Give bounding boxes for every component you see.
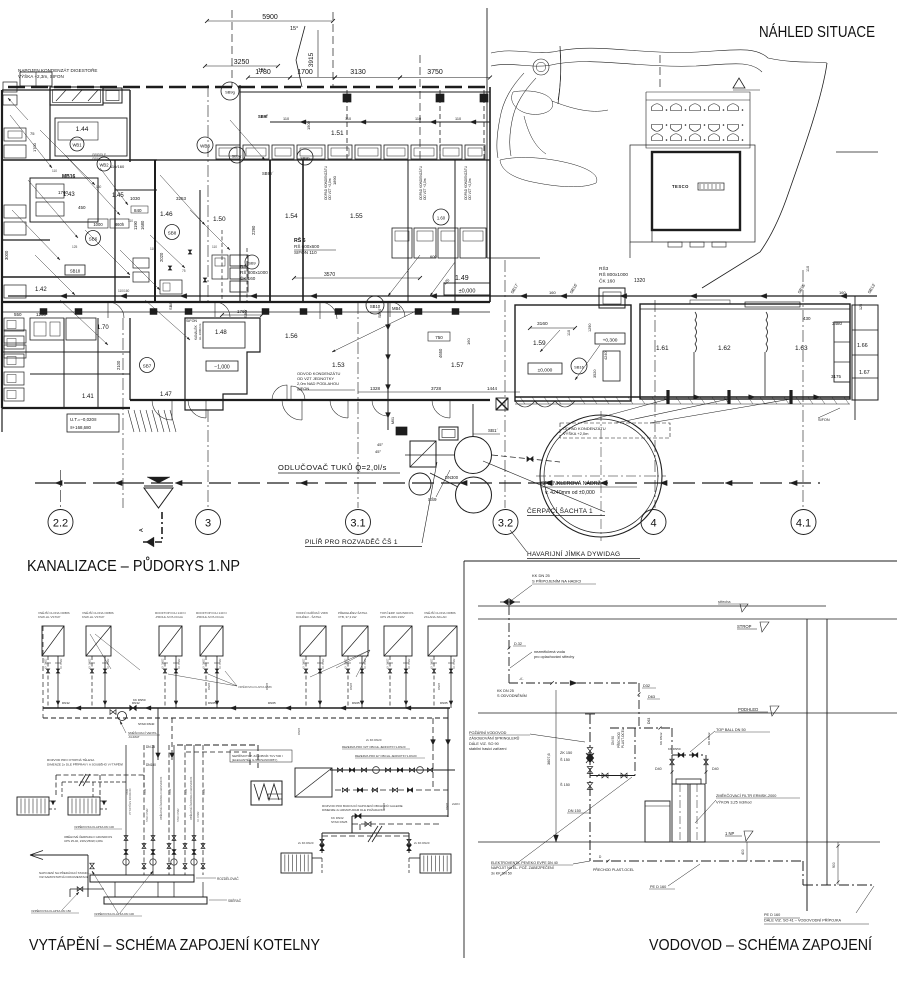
svg-text:1680: 1680 — [140, 220, 145, 230]
branch dashed loop to radiators — [56, 775, 144, 797]
svg-text:1.45: 1.45 — [112, 193, 124, 199]
circle SB6 — [86, 231, 101, 246]
svg-text:2100: 2100 — [116, 360, 121, 370]
radiator connections — [49, 800, 107, 802]
leader fan left units — [168, 674, 237, 686]
svg-text:DN 25: DN 25 — [146, 745, 155, 749]
svg-text:OD VZT +2,0m: OD VZT +2,0m — [468, 178, 472, 200]
svg-text:2290: 2290 — [251, 225, 256, 235]
unit 8 pipes — [433, 656, 435, 708]
kitchen hood — [50, 87, 103, 105]
corner down x639 — [638, 683, 640, 728]
svg-text:WB3: WB3 — [200, 144, 210, 149]
svg-text:DN65: DN65 — [437, 682, 441, 690]
svg-text:SB9: SB9 — [248, 262, 255, 266]
AHU unit box 2 — [86, 626, 111, 656]
fixtures 1.50 room — [212, 255, 228, 279]
svg-text:1.50: 1.50 — [213, 216, 226, 223]
svg-text:KK DN32: KK DN32 — [659, 732, 663, 745]
label SB10 circle — [366, 296, 384, 314]
softener tanks — [645, 801, 670, 842]
dim 900 — [837, 842, 839, 885]
unit 3 pipes — [164, 656, 166, 708]
lower plan block — [2, 296, 520, 508]
svg-text:DN 150: DN 150 — [568, 809, 581, 813]
AHU unit box 7 — [384, 626, 412, 656]
svg-text:2.2: 2.2 — [53, 518, 68, 530]
svg-text:3570: 3570 — [324, 272, 335, 278]
short stub right of map — [836, 151, 878, 153]
tank leader valve — [492, 455, 560, 462]
dim 750 box — [428, 332, 450, 341]
kk vertical valves — [670, 759, 674, 765]
svg-text:1.70: 1.70 — [97, 325, 109, 331]
svg-text:DIMENZE 2x ARMATURAM DLE POŽAD: DIMENZE 2x ARMATURAM DLE POŽADAVKŮ — [322, 807, 385, 812]
svg-text:±0,000: ±0,000 — [538, 368, 553, 374]
right edge pipes — [854, 296, 856, 420]
svg-text:ČERPACÍ ŠACHTA 1: ČERPACÍ ŠACHTA 1 — [527, 506, 593, 515]
svg-text:KK DN32: KK DN32 — [387, 658, 390, 669]
svg-text:DN65: DN65 — [352, 701, 360, 705]
right vertical ends — [806, 885, 808, 911]
left fixtures — [4, 128, 26, 141]
svg-text:TOP BALL DN 50: TOP BALL DN 50 — [716, 728, 746, 732]
leader fan mid — [90, 634, 111, 669]
svg-text:2x KK DN20: 2x KK DN20 — [414, 841, 430, 845]
svg-text:1190: 1190 — [133, 220, 138, 230]
svg-text:UPS 25-60N 230V: UPS 25-60N 230V — [380, 615, 405, 619]
svg-text:1444: 1444 — [487, 386, 498, 391]
svg-text:5900: 5900 — [262, 14, 278, 21]
svg-text:1.60: 1.60 — [437, 216, 446, 221]
down risers mid — [157, 708, 159, 760]
fire riser valves — [587, 748, 592, 755]
dim row 1328 3728 1444 — [358, 391, 520, 393]
svg-text:RŠ 800x1000: RŠ 800x1000 — [240, 269, 268, 275]
svg-text:SB6: SB6 — [89, 237, 98, 242]
reserve valve row 2 — [335, 789, 448, 791]
hall dividers — [695, 312, 697, 352]
svg-text:75: 75 — [182, 269, 186, 273]
roof line strecha — [478, 605, 826, 607]
svg-text:KK DN32: KK DN32 — [364, 658, 367, 669]
road to southwest — [497, 73, 524, 158]
svg-text:110: 110 — [150, 247, 155, 251]
left radiator 1 — [17, 797, 49, 815]
grid dashed vertical x420 — [419, 55, 421, 160]
svg-text:SB9h´: SB9h´ — [262, 171, 274, 176]
box -1000 — [206, 361, 238, 371]
svg-text:D32: D32 — [643, 684, 650, 688]
box 0000 range — [444, 283, 490, 295]
svg-text:VYT.OHŘEV 2000/1000: VYT.OHŘEV 2000/1000 — [129, 788, 132, 815]
parking cars row1 — [652, 104, 663, 111]
manifold rozdelovac — [90, 875, 194, 882]
AHU unit box 6 — [342, 626, 368, 656]
svg-text:pro oplachování střechy: pro oplachování střechy — [534, 655, 574, 659]
svg-text:ROZDĚLOVAČ: ROZDĚLOVAČ — [217, 876, 239, 881]
unit 2 pipes — [91, 656, 93, 708]
tables top-left corner — [20, 72, 52, 86]
svg-text:KANALIZACE – PŮDORYS 1.NP: KANALIZACE – PŮDORYS 1.NP — [27, 556, 240, 575]
bottom door arcs — [152, 400, 172, 420]
unit 7 pipes — [389, 656, 391, 708]
svg-text:3175: 3175 — [831, 374, 842, 379]
tesco vents — [668, 242, 682, 247]
svg-text:Š 150: Š 150 — [560, 757, 570, 762]
room 1.48 outline — [185, 318, 260, 410]
wall top-left — [2, 89, 130, 91]
svg-text:VODOVOD – SCHÉMA ZAPOJENÍ: VODOVOD – SCHÉMA ZAPOJENÍ — [649, 935, 872, 954]
svg-text:D40: D40 — [712, 767, 719, 771]
svg-text:1000: 1000 — [93, 222, 103, 227]
svg-text:KK DN32: KK DN32 — [203, 658, 206, 669]
dimension row 1780-1700-3130-3750 — [248, 77, 290, 79]
strop line — [478, 618, 897, 620]
svg-text:750: 750 — [435, 335, 443, 340]
svg-text:1 NP: 1 NP — [725, 831, 735, 836]
svg-text:KK DN32: KK DN32 — [303, 658, 306, 669]
svg-text:1.49: 1.49 — [455, 275, 469, 282]
svg-text:3130: 3130 — [350, 69, 366, 76]
svg-text:3000: 3000 — [4, 250, 9, 260]
room circle WB2 — [97, 157, 111, 171]
leader slash top — [296, 60, 302, 87]
situace map — [487, 8, 875, 288]
svg-text:D63: D63 — [647, 718, 651, 724]
boxes 1000 860h — [88, 219, 108, 228]
svg-text:MB4´: MB4´ — [392, 306, 403, 311]
svg-text:160: 160 — [549, 290, 556, 295]
bottom thick ticks — [666, 390, 669, 404]
svg-text:1.44: 1.44 — [76, 126, 89, 133]
riser comb — [125, 745, 127, 875]
dim 1760 mid — [222, 314, 262, 316]
svg-text:400: 400 — [741, 849, 745, 855]
svg-text:DN32: DN32 — [126, 788, 129, 795]
leaders 1.59 — [540, 330, 560, 352]
svg-text:RŠ 800x1000: RŠ 800x1000 — [599, 271, 628, 278]
svg-text:U.T.=−0,020≡: U.T.=−0,020≡ — [70, 417, 97, 422]
black X valve — [496, 398, 508, 410]
wall h y240 — [2, 239, 50, 241]
AHU unit box 8 — [428, 626, 457, 656]
svg-text:4240: 4240 — [604, 352, 608, 360]
manifold inter-risers — [114, 882, 116, 897]
svg-text:SB7: SB7 — [143, 364, 152, 369]
dashed bottom walk — [515, 401, 575, 407]
fixtures 1.46 room — [133, 258, 149, 268]
svg-text:SB1´: SB1´ — [488, 428, 499, 433]
double vertical right — [806, 619, 808, 911]
svg-text:SB10´: SB10´ — [378, 307, 382, 318]
dim 3607 — [555, 690, 557, 842]
circle SB9g2 — [229, 147, 245, 163]
warning triangle map — [733, 78, 745, 88]
stair hatch lower left — [128, 410, 134, 432]
svg-text:110: 110 — [455, 117, 461, 121]
svg-text:KK DN32: KK DN32 — [707, 732, 711, 745]
svg-text:Š 150: Š 150 — [560, 782, 570, 787]
svg-text:1.51: 1.51 — [331, 130, 344, 137]
hall top hatch piece — [745, 302, 800, 307]
wall v x130 — [129, 90, 131, 162]
svg-text:1.42: 1.42 — [35, 287, 47, 293]
left supply arrow — [30, 854, 88, 856]
svg-text:střecha: střecha — [718, 600, 731, 604]
chain vertical x123 — [122, 318, 124, 508]
svg-text:RŠ 6: RŠ 6 — [294, 236, 306, 244]
svg-text:1.54: 1.54 — [285, 213, 298, 220]
svg-text:VYTÁPĚNÍ – SCHÉMA ZAPOJENÍ KOT: VYTÁPĚNÍ – SCHÉMA ZAPOJENÍ KOTELNY — [29, 935, 320, 954]
grid chain x208 upper — [207, 85, 209, 302]
dashed loop right top — [177, 745, 258, 768]
chain vertical x358 — [357, 302, 359, 508]
wall v x115 — [114, 160, 116, 302]
svg-text:VZPĚROVKA KLAPKA DN 100: VZPĚROVKA KLAPKA DN 100 — [74, 824, 114, 829]
tiny vert pipe marks — [168, 266, 171, 270]
wall h y277 — [2, 276, 130, 278]
room circle WB3 — [197, 137, 213, 153]
svg-text:ZK 150: ZK 150 — [560, 751, 572, 755]
svg-text:±0,000: ±0,000 — [459, 289, 476, 295]
svg-text:STROP: STROP — [737, 624, 752, 629]
equipment row 2 — [392, 228, 412, 258]
svg-text:900: 900 — [832, 862, 836, 868]
lower loop pipes — [352, 815, 448, 817]
kk valves row — [678, 753, 684, 757]
svg-text:NÁHLED SITUACE: NÁHLED SITUACE — [759, 22, 875, 41]
svg-text:125: 125 — [72, 245, 78, 249]
svg-text:1.62: 1.62 — [718, 345, 731, 352]
sewer dash line y483 — [35, 482, 820, 484]
svg-text:ČK 160: ČK 160 — [599, 277, 615, 284]
svg-text:v. 4240mm od ±0,000: v. 4240mm od ±0,000 — [545, 490, 595, 496]
svg-text:3728: 3728 — [431, 386, 442, 391]
circle SB7 — [140, 358, 155, 373]
svg-text:STAD DN40: STAD DN40 — [138, 722, 155, 726]
svg-text:450: 450 — [78, 205, 86, 210]
right branch down to radiator — [408, 833, 410, 853]
svg-text:SBĚRAČ: SBĚRAČ — [228, 898, 242, 903]
svg-text:RŠ3: RŠ3 — [599, 265, 609, 272]
plan extra fixtures left strip — [4, 318, 24, 331]
wall bottom main — [2, 407, 130, 409]
radiator bottom right — [420, 854, 451, 873]
svg-text:1.55: 1.55 — [350, 213, 363, 220]
hall bottom parallel line — [515, 403, 850, 405]
svg-text:75: 75 — [30, 131, 35, 136]
grid dashed vertical x333 — [332, 12, 334, 87]
chain vertical x655 — [654, 300, 656, 508]
svg-text:110: 110 — [212, 245, 217, 249]
plan left block — [2, 66, 490, 408]
svg-text:KK DN32: KK DN32 — [322, 658, 325, 669]
pump circles pair — [455, 437, 492, 474]
svg-text:SIFON: SIFON — [186, 319, 197, 323]
svg-text:D.32: D.32 — [514, 642, 522, 646]
right rooms edge — [852, 305, 878, 400]
diag leaders plan left — [10, 115, 52, 168]
svg-text:SŠ9: SŠ9 — [428, 496, 437, 502]
AHU unit box 5 — [300, 626, 326, 656]
svg-text:OD VZT +2,0m: OD VZT +2,0m — [423, 178, 427, 200]
circle SB9g — [221, 82, 239, 100]
plan extra fixtures left 2 — [30, 318, 64, 340]
svg-text:3160: 3160 — [537, 321, 548, 327]
svg-text:POŽÁRNÍ VODOVOD: POŽÁRNÍ VODOVOD — [469, 730, 507, 735]
svg-text:15°: 15° — [258, 68, 266, 74]
svg-text:1890: 1890 — [332, 175, 337, 185]
door arcs above bottom wall — [272, 385, 287, 400]
svg-text:3607,6: 3607,6 — [547, 753, 551, 765]
svg-text:PŘECHOD PLAST-OCEL: PŘECHOD PLAST-OCEL — [593, 867, 634, 872]
RS1 box — [30, 178, 98, 222]
drops to tanks — [671, 768, 673, 784]
svg-text:DN32: DN32 — [185, 788, 188, 795]
svg-text:SB9g: SB9g — [225, 90, 235, 95]
svg-text:DN32: DN32 — [203, 788, 206, 795]
chain vertical x803 — [802, 270, 804, 508]
svg-text:1.46: 1.46 — [160, 211, 173, 218]
bottom arrows right — [694, 395, 700, 400]
rooms 1.54 1.55 walls — [302, 160, 304, 302]
svg-text:DN32: DN32 — [62, 701, 70, 705]
svg-text:GRILL: GRILL — [92, 157, 101, 161]
door sills bottom corridor — [2, 301, 490, 303]
walls lower left rooms — [63, 318, 65, 408]
svg-text:DOHŘEV - ŠATNA: DOHŘEV - ŠATNA — [296, 614, 321, 619]
svg-text:KSW-HL VSTUP: KSW-HL VSTUP — [38, 615, 60, 619]
mixing valve assembly — [118, 712, 127, 721]
svg-text:DN32: DN32 — [144, 788, 147, 795]
label M01 — [396, 427, 407, 435]
return bus dashed — [43, 717, 450, 719]
svg-text:110: 110 — [345, 117, 351, 121]
svg-text:2020: 2020 — [159, 252, 164, 262]
svg-text:NAPOJEN KONDENZÁT DIGESTOŘE: NAPOJEN KONDENZÁT DIGESTOŘE — [18, 66, 97, 73]
svg-text:DN32: DN32 — [169, 788, 172, 795]
bus arrows — [75, 706, 81, 711]
branch vertical x635 — [634, 728, 636, 776]
hood side box — [103, 88, 122, 103]
svg-text:4650: 4650 — [438, 348, 443, 358]
fire riser pipe — [589, 714, 591, 861]
chain stub x60 — [60, 470, 62, 509]
svg-text:1.66: 1.66 — [857, 343, 868, 349]
svg-text:160: 160 — [96, 185, 102, 189]
wall v x50 — [49, 87, 51, 160]
wall outer left — [1, 90, 3, 408]
grid dashed vertical x232 — [231, 10, 233, 87]
svg-text:1.48: 1.48 — [215, 330, 227, 336]
inner landscape paths — [512, 91, 553, 115]
svg-text:KK DN32: KK DN32 — [453, 658, 456, 669]
svg-text:KK DN 25: KK DN 25 — [532, 573, 551, 578]
svg-text:ELEKTROVENTIL PEVEKO EVPE DN 4: ELEKTROVENTIL PEVEKO EVPE DN 40 — [491, 861, 558, 865]
svg-text:KK DN50: KK DN50 — [133, 698, 146, 702]
svg-text:KK DN50: KK DN50 — [668, 747, 681, 751]
parking lot outline — [646, 92, 750, 148]
svg-text:ZMĚKČOVACÍ FILTR ERMSK-2000: ZMĚKČOVACÍ FILTR ERMSK-2000 — [716, 793, 776, 798]
dim 3570 — [294, 277, 420, 279]
svg-text:DN65: DN65 — [208, 701, 216, 705]
wall v x270 — [269, 160, 271, 302]
svg-text:KK DN32: KK DN32 — [89, 658, 92, 669]
roundabout — [533, 59, 549, 75]
svg-text:160: 160 — [466, 338, 471, 345]
svg-text:REZERVA PRO VZT OBCHL.JEDNOTKY: REZERVA PRO VZT OBCHL.JEDNOTKY1-DN20 — [342, 745, 406, 749]
svg-text:A: A — [139, 528, 145, 532]
svg-text:4: 4 — [650, 518, 656, 530]
road curves top — [491, 48, 827, 63]
svg-text:S PŘIPOJENÍM NA HADICI: S PŘIPOJENÍM NA HADICI — [532, 578, 581, 583]
svg-text:WB2: WB2 — [99, 163, 109, 168]
corridor 1.51 block — [157, 82, 490, 302]
room 1.44 counter — [55, 118, 127, 156]
bottom main dashdot — [593, 860, 803, 862]
svg-text:WB1: WB1 — [72, 143, 82, 148]
svg-text:110: 110 — [52, 169, 57, 173]
svg-text:MB16: MB16 — [62, 174, 76, 180]
door arcs corridor — [108, 302, 124, 318]
svg-text:550: 550 — [14, 312, 22, 317]
svg-text:ROZVOD PRO OTOPNÁ TĚLESA: ROZVOD PRO OTOPNÁ TĚLESA — [47, 757, 95, 762]
chain vertical x505 — [504, 260, 506, 508]
top dimension row — [203, 10, 660, 160]
svg-text:45°: 45° — [377, 442, 383, 447]
svg-text:stabilní hasicí zařízení: stabilní hasicí zařízení — [469, 747, 508, 751]
svg-text:KK DN32: KK DN32 — [45, 658, 48, 669]
svg-text:15°: 15° — [290, 26, 298, 32]
svg-text:1.67: 1.67 — [859, 370, 870, 376]
svg-text:125: 125 — [859, 304, 863, 310]
svg-text:DÁLE VIZ. SO 90: DÁLE VIZ. SO 90 — [469, 742, 499, 746]
svg-text:1030: 1030 — [130, 196, 141, 201]
svg-text:160: 160 — [839, 290, 846, 295]
bottom wall hall — [515, 396, 850, 398]
svg-text:3250: 3250 — [234, 59, 250, 66]
svg-text:1.41: 1.41 — [82, 394, 94, 400]
svg-text:STAD DN32: STAD DN32 — [146, 808, 149, 822]
wall corridor top y122 pipe — [270, 121, 490, 123]
svg-text:DN65: DN65 — [440, 701, 448, 705]
pipes dashed x222 x247 — [221, 230, 223, 302]
horizontal dashdot y683 — [509, 682, 639, 684]
svg-text:430: 430 — [803, 316, 811, 321]
map bottom joins plan — [487, 257, 540, 259]
svg-text:840: 840 — [134, 208, 142, 213]
svg-text:KK DN32: KK DN32 — [60, 658, 63, 669]
future supply pipes — [447, 790, 449, 817]
AHU unit box 4 — [200, 626, 223, 656]
svg-text:110: 110 — [567, 330, 571, 336]
svg-text:1290: 1290 — [588, 324, 592, 332]
roof hydrant — [508, 598, 510, 606]
svg-text:SB8: SB8 — [168, 231, 177, 236]
svg-text:ZKLANA-SKLAD: ZKLANA-SKLAD — [424, 615, 447, 619]
circle 1.60 — [433, 209, 449, 225]
svg-text:NAPOJIT NA EL. POŽ. ZABEZPEČEN: NAPOJIT NA EL. POŽ. ZABEZPEČENÍ — [491, 865, 554, 870]
svg-text:VÝŠKA +2,0m: VÝŠKA +2,0m — [563, 431, 589, 436]
map road bottom — [630, 230, 652, 258]
svg-text:-PROHL.M PLOCHA: -PROHL.M PLOCHA — [196, 615, 224, 619]
svg-text:+0,300: +0,300 — [603, 338, 618, 344]
svg-text:PLAST-OCEL: PLAST-OCEL — [621, 728, 625, 748]
site boundary right curve — [702, 63, 827, 288]
manifold sberac — [104, 897, 207, 904]
right wing block — [505, 260, 878, 508]
